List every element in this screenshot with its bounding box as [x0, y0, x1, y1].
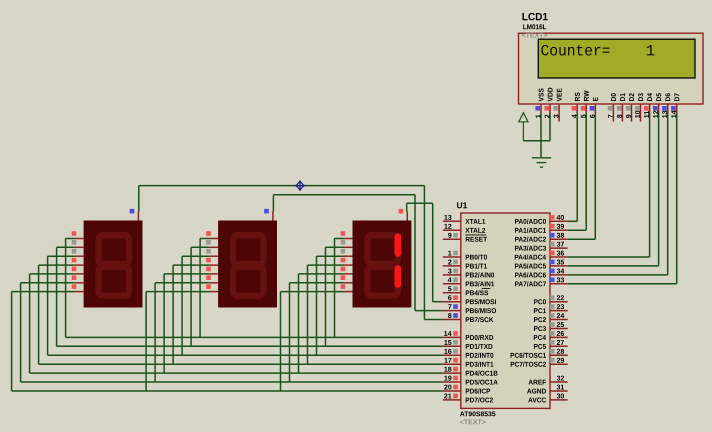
LCD pin 9 D2 — [631, 104, 633, 122]
LCD pin 13 D6 — [667, 104, 669, 113]
U1 pin 32 AREF — [550, 381, 568, 383]
display 3 segment pins — [344, 238, 353, 240]
U1 pin 2 PB1/T1 — [443, 265, 461, 267]
wire: 7-seg display 2 common to U1 pin 7 — [272, 195, 274, 212]
U1 reference label — [457, 202, 467, 208]
U1 pin 1 PB0/T0 — [443, 256, 461, 258]
LCD pin 11 D4 — [649, 104, 651, 113]
U1 pin 38 PA2/ADC2 — [550, 238, 568, 240]
U1 pin 24 PC2 — [550, 319, 568, 321]
U1 pin 15 PD1/TXD — [443, 345, 461, 347]
U1 pin 39 PA1/ADC1 — [550, 229, 568, 231]
U1 pin 7 PB6/MISO — [443, 310, 461, 312]
power symbol (VDD arrow) — [519, 113, 528, 141]
wire: LCD VDD to power — [549, 113, 551, 141]
LCD pin 14 D7 — [676, 104, 678, 113]
U1 pin 4 PB3/AIN1 — [443, 283, 461, 285]
LCD pin 10 D3 — [640, 104, 642, 122]
wire: display segment verticals — [65, 239, 67, 338]
LCD pin 8 D1 — [621, 104, 623, 122]
LCD1 text placeholder — [522, 33, 547, 38]
U1 pin 31 AGND — [550, 390, 568, 392]
display 3 common pin — [406, 212, 408, 221]
LCD1 screen — [538, 39, 695, 78]
7-segment display 2 body — [218, 221, 277, 308]
U1 pin 33 PA7/ADC7 — [550, 283, 568, 285]
LCD pin 6 E — [594, 104, 596, 113]
U1 value label AT90S8535 — [460, 411, 495, 416]
LCD1 reference label — [522, 13, 547, 20]
U1 pin 6 PB5/MOSI — [443, 301, 461, 303]
display 1 common pin — [137, 212, 139, 221]
U1 pin 34 PA6/ADC6 — [550, 274, 568, 276]
U1 pin 30 AVCC — [550, 399, 568, 401]
U1 pin 13 XTAL1 — [443, 220, 461, 222]
U1 pin 19 PD5/OC1A — [443, 381, 461, 383]
U1 pin 36 PA4/ADC4 — [550, 256, 568, 258]
wire: segment bus rows from displays to U1 pins 14-20 — [66, 336, 443, 338]
U1 pin 18 PD4/OC1B — [443, 372, 461, 374]
U1 pin 25 PC3 — [550, 328, 568, 330]
display 2 common pin — [272, 212, 274, 221]
U1 pin 35 PA5/ADC5 — [550, 265, 568, 267]
U1 pin 26 PC4 — [550, 336, 568, 338]
LCD pin 7 D0 — [612, 104, 614, 122]
LCD pin 3 VEE — [558, 104, 560, 122]
display 2 segment pins — [209, 238, 218, 240]
LCD pin 5 RW — [585, 104, 587, 113]
U1 pin 17 PD3/INT1 — [443, 363, 461, 365]
wire: LCD VSS to ground — [540, 113, 542, 158]
7-segment display 1 body — [84, 221, 143, 308]
7-segment display 3 body — [353, 221, 412, 308]
U1 pin 22 PC0 — [550, 301, 568, 303]
U1 pin 28 PC6/TOSC1 — [550, 354, 568, 356]
LCD pin 12 D5 — [658, 104, 660, 113]
U1 pin 21 PD7/OC2 — [443, 399, 461, 401]
U1 pin 3 PB2/AIN0 — [443, 274, 461, 276]
wire: 7-seg display 1 common to U1 pin 8 — [138, 186, 140, 212]
LCD pin 4 RS — [576, 104, 578, 113]
IC U1 AT90S8535 MCU body — [461, 213, 550, 408]
U1 pin 16 PD2/INT0 — [443, 354, 461, 356]
U1 pin 27 PC5 — [550, 345, 568, 347]
LCD1 value label LM016L — [523, 24, 546, 29]
LCD screen text Counter= 1 — [541, 45, 609, 56]
lit segments b,c showing digit 1 — [395, 234, 402, 257]
LCD pin 2 VDD — [549, 104, 551, 113]
U1 pin 37 PA3/ADC3 — [550, 247, 568, 249]
node: junction origin marker on display1 common wire — [295, 180, 305, 191]
ground symbol (LCD VSS) — [532, 158, 551, 167]
U1 pin 14 PD0/RXD — [443, 336, 461, 338]
U1 pin 12 XTAL2 — [443, 229, 461, 231]
display 1 segment pins — [75, 238, 84, 240]
U1 pin 29 PC7/TOSC2 — [550, 363, 568, 365]
LCD pin 1 VSS — [540, 104, 542, 113]
LCD1 body — [519, 33, 704, 104]
U1 pin 5 PB4/SS — [443, 292, 461, 294]
U1 pin 8 PB7/SCK — [443, 319, 461, 321]
U1 pin 9 RESET — [443, 238, 461, 240]
wire: LCD D4-D7 to U1 PA4-PA7 — [649, 113, 651, 257]
U1 pin 23 PC1 — [550, 310, 568, 312]
wire: LCD RS/RW/E to U1 PA0-PA2 — [576, 113, 578, 221]
U1 pin 20 PD6/ICP — [443, 390, 461, 392]
wire: 7-seg display 3 common to U1 pin 6 — [406, 203, 408, 211]
U1 pin 40 PA0/ADC0 — [550, 220, 568, 222]
